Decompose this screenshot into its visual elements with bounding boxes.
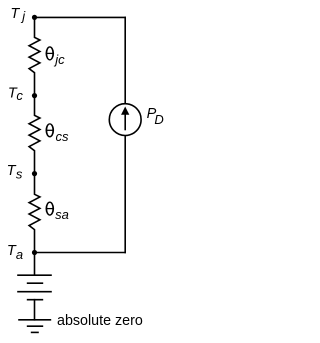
svg-text:absolute zero: absolute zero <box>57 313 143 329</box>
svg-text:T: T <box>10 6 20 22</box>
svg-text:cs: cs <box>56 129 70 144</box>
svg-text:a: a <box>16 247 23 262</box>
svg-text:jc: jc <box>53 52 65 67</box>
svg-text:sa: sa <box>55 207 69 222</box>
svg-text:s: s <box>16 167 23 182</box>
svg-text:j: j <box>20 8 26 23</box>
svg-text:D: D <box>154 112 163 127</box>
svg-text:c: c <box>16 88 23 103</box>
